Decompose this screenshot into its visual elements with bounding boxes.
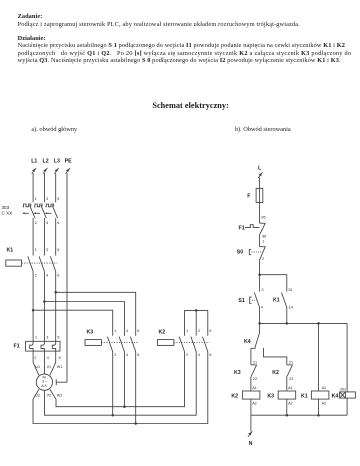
- svg-text:1: 1: [35, 335, 37, 339]
- bus N bottom: [251, 414, 347, 417]
- svg-text:5: 5: [137, 329, 139, 333]
- wire L2 mid2: [43, 271, 45, 341]
- overload relay F1: [14, 335, 61, 360]
- svg-text:K4: K4: [332, 394, 339, 400]
- svg-text:K2: K2: [272, 370, 279, 376]
- terminal PE: [65, 159, 73, 174]
- svg-text:V1: V1: [47, 365, 52, 369]
- svg-text:4: 4: [261, 305, 263, 309]
- wire K2 coil bottom: [250, 399, 252, 415]
- svg-text:2: 2: [114, 353, 116, 357]
- contactor K1 main contacts: [6, 247, 60, 277]
- wire bus to K4 coil: [346, 323, 348, 392]
- svg-text:4: 4: [126, 353, 128, 357]
- wire K3 coil bottom: [286, 399, 288, 415]
- svg-text:Δ Λ: Δ Λ: [41, 384, 47, 388]
- svg-text:PE: PE: [65, 159, 73, 165]
- wire K3 pole3 bottom: [135, 352, 137, 424]
- svg-text:13: 13: [288, 288, 292, 292]
- svg-text:5: 5: [209, 329, 211, 333]
- timer K4 coil 20s: [332, 388, 356, 400]
- svg-text:4: 4: [46, 221, 48, 225]
- svg-text:S1: S1: [238, 298, 245, 304]
- node S0-S1/K1: [258, 273, 286, 291]
- wire K3 pole2 bottom: [123, 352, 125, 407]
- svg-text:3: 3: [46, 335, 48, 339]
- K2 star bus: [185, 309, 208, 336]
- contactor K2 main contacts: [158, 329, 212, 357]
- wire L3 mid2: [55, 271, 57, 341]
- wire motor U2: [33, 352, 208, 424]
- svg-text:96: 96: [262, 235, 266, 239]
- svg-text:22: 22: [253, 377, 257, 381]
- wire L1 top: [32, 173, 34, 202]
- wire motor V2: [44, 352, 196, 416]
- svg-text:5: 5: [57, 335, 59, 339]
- wire bus to K1 coil: [318, 323, 320, 391]
- terminal L2: [43, 159, 49, 174]
- wire S1 bottom: [259, 308, 261, 324]
- svg-text:1: 1: [114, 329, 116, 333]
- svg-text:6: 6: [137, 353, 139, 357]
- contact K2 NC 21-22: [272, 361, 293, 382]
- svg-text:U1: U1: [35, 365, 40, 369]
- svg-text:3: 3: [262, 288, 264, 292]
- wire F1-S0: [259, 234, 261, 246]
- svg-text:L3: L3: [54, 159, 60, 165]
- svg-text:F: F: [247, 194, 251, 200]
- svg-text:K2: K2: [159, 330, 166, 336]
- svg-text:14: 14: [289, 305, 293, 309]
- wire L1 mid2: [32, 271, 34, 341]
- svg-text:21: 21: [289, 361, 293, 365]
- svg-text:A2: A2: [252, 402, 257, 406]
- svg-text:5: 5: [57, 197, 59, 201]
- pushbutton S1 NO: [238, 293, 259, 308]
- svg-text:20s: 20s: [340, 388, 346, 392]
- svg-text:1: 1: [262, 239, 264, 243]
- node tap L2: [43, 300, 124, 335]
- contact K1 NO 13-14: [273, 293, 287, 308]
- wire L1 mid1: [32, 218, 34, 255]
- node tap L1: [32, 309, 113, 336]
- bus upper control: [258, 322, 347, 325]
- svg-text:V2: V2: [47, 394, 52, 398]
- svg-text:A1: A1: [252, 386, 257, 390]
- wire L3 top: [55, 173, 57, 202]
- terminal L3: [54, 159, 60, 174]
- svg-text:4: 4: [47, 356, 49, 360]
- wire K4 coil bottom: [346, 398, 348, 415]
- svg-text:K1: K1: [7, 247, 14, 253]
- svg-text:F1: F1: [239, 225, 245, 231]
- svg-text:L: L: [258, 165, 262, 171]
- svg-text:3: 3: [198, 329, 200, 333]
- svg-text:A1: A1: [322, 386, 327, 390]
- junction K3:6 on U2 line: [134, 422, 137, 425]
- pushbutton S0 NC: [237, 246, 266, 259]
- wire F1 to motor V1: [43, 351, 45, 374]
- terminal N: [248, 415, 253, 447]
- svg-text:F1: F1: [14, 344, 20, 350]
- svg-text:95: 95: [261, 216, 265, 220]
- wire K4 to K3 contact: [250, 348, 252, 365]
- coil K2: [231, 386, 260, 406]
- terminal L1: [31, 159, 37, 174]
- motor M1: [35, 365, 62, 398]
- svg-text:303: 303: [2, 205, 10, 210]
- svg-text:C XX: C XX: [2, 211, 13, 216]
- svg-text:2: 2: [186, 353, 188, 357]
- svg-text:A1: A1: [288, 386, 293, 390]
- wire L down: [259, 177, 261, 223]
- PE connection to motor frame: [56, 379, 67, 385]
- svg-text:22: 22: [289, 377, 293, 381]
- wire link to K2 contact branch: [264, 348, 287, 365]
- fuse F: [247, 188, 263, 202]
- wire S1 branch top: [259, 275, 261, 292]
- svg-text:S0: S0: [237, 250, 244, 256]
- svg-text:W1: W1: [57, 365, 63, 369]
- wire L2 mid1: [43, 218, 45, 255]
- circuit breaker Q1 303 C XX: [2, 197, 60, 225]
- wire K4 branch top: [259, 323, 261, 333]
- svg-text:K2: K2: [231, 394, 238, 400]
- svg-text:W2: W2: [57, 394, 63, 398]
- wire K3nc to K2 coil: [250, 377, 252, 392]
- svg-text:A2: A2: [322, 402, 327, 406]
- wire K2nc to K3 coil: [286, 377, 288, 392]
- svg-text:1: 1: [186, 329, 188, 333]
- svg-text:K3: K3: [234, 370, 241, 376]
- svg-text:3: 3: [46, 248, 48, 252]
- svg-text:3: 3: [126, 329, 128, 333]
- svg-text:K4: K4: [244, 339, 251, 345]
- svg-text:2: 2: [35, 221, 37, 225]
- node tap L3: [54, 291, 135, 336]
- contact K3 NC 21-22: [234, 361, 257, 382]
- svg-text:K1: K1: [273, 298, 280, 304]
- wire L2 top: [43, 173, 45, 202]
- svg-text:6: 6: [209, 353, 211, 357]
- wire PE vertical: [66, 173, 68, 382]
- wire K1 coil bottom: [318, 399, 320, 415]
- svg-text:1: 1: [35, 197, 37, 201]
- F1 NC contact: [239, 223, 266, 234]
- svg-text:3: 3: [46, 197, 48, 201]
- coil K1: [301, 386, 329, 406]
- junction K3:2 on V2 line: [111, 414, 114, 417]
- svg-text:6: 6: [59, 356, 61, 360]
- svg-text:4: 4: [198, 353, 200, 357]
- contactor K3 main contacts: [85, 329, 139, 357]
- svg-text:N: N: [249, 441, 253, 447]
- svg-text:A2: A2: [288, 402, 293, 406]
- svg-text:2: 2: [35, 274, 37, 278]
- wire S0 down: [259, 259, 261, 274]
- junction K3:4 on W2 line: [123, 405, 126, 408]
- svg-text:6: 6: [57, 274, 59, 278]
- wire L3 mid1: [55, 218, 57, 255]
- document header text: [18, 13, 360, 28]
- svg-text:1: 1: [35, 248, 37, 252]
- wire K1 contact bottom: [286, 308, 288, 324]
- svg-text:2: 2: [262, 257, 264, 261]
- contact K4 NC timed: [244, 333, 260, 348]
- svg-text:L1: L1: [31, 159, 37, 165]
- svg-text:L2: L2: [43, 159, 49, 165]
- wire K3 pole1 bottom: [112, 352, 114, 416]
- svg-text:K1: K1: [301, 394, 308, 400]
- svg-text:K3: K3: [87, 330, 94, 336]
- svg-text:5: 5: [57, 248, 59, 252]
- svg-text:6: 6: [57, 221, 59, 225]
- coil K3: [267, 386, 295, 406]
- svg-text:21: 21: [253, 361, 257, 365]
- svg-text:4: 4: [46, 274, 48, 278]
- wire F1 to motor W1: [50, 351, 56, 375]
- svg-text:2: 2: [34, 356, 36, 360]
- svg-text:K3: K3: [267, 394, 274, 400]
- wire F1 to motor U1: [33, 351, 39, 375]
- svg-text:3 ~: 3 ~: [42, 380, 47, 384]
- wire motor W2: [50, 352, 185, 407]
- terminal L: [258, 165, 263, 178]
